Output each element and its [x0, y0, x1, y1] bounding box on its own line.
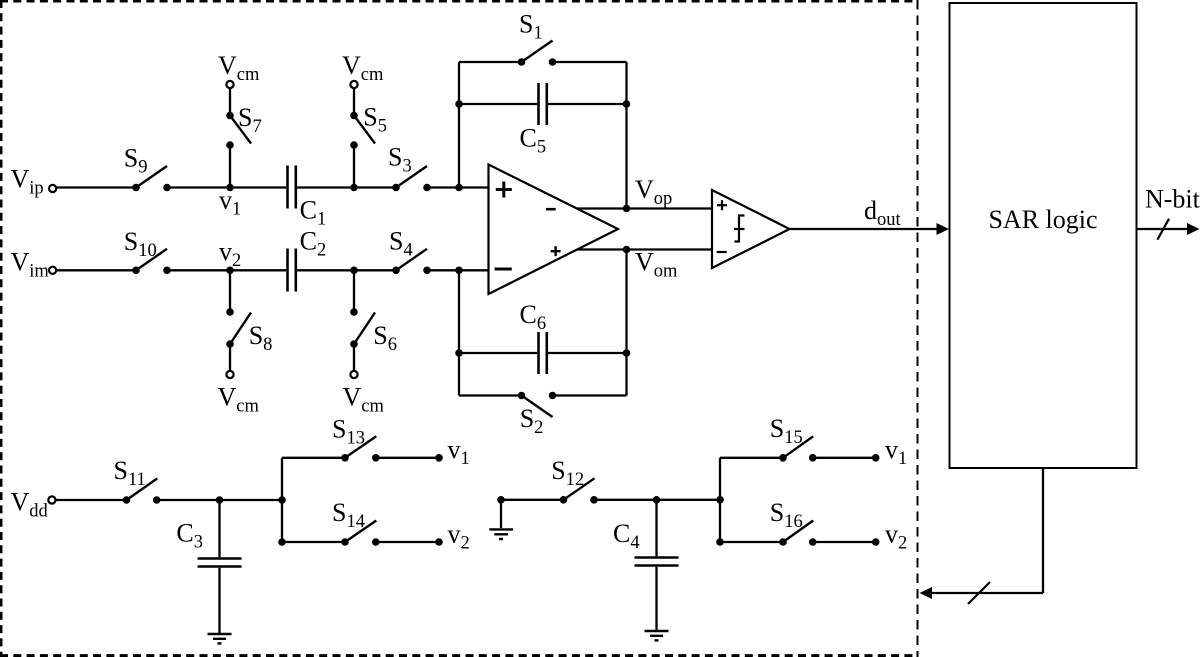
- capacitor C4: [613, 500, 679, 630]
- node v1: [219, 184, 241, 220]
- junction node: - input / feedback loop bottom-left: [455, 267, 463, 275]
- wire dout: comparator to SAR logic: [790, 228, 939, 230]
- net label Vcm (below S8): [218, 382, 260, 416]
- wire S13 to v1 terminal: [376, 454, 443, 462]
- switch S12: [551, 456, 598, 503]
- switch S9: [124, 143, 171, 191]
- wire Vop: op-amp to comparator +: [577, 207, 712, 209]
- ground below C3: [208, 634, 232, 643]
- port Vdd terminal: [11, 487, 56, 521]
- wire Vim to S10: [57, 269, 137, 271]
- op-amp U1 (fully differential): [489, 165, 619, 295]
- node C4 top junction: [653, 496, 661, 504]
- wire feedback left vertical (bottom loop): [458, 270, 460, 395]
- wire feedback right vertical (bottom loop): [625, 250, 627, 396]
- bus slash on feedback wire: [968, 582, 990, 604]
- switch S6 to Vcm (lower right): [350, 270, 397, 378]
- switch S5 to Vcm (upper right): [350, 81, 387, 188]
- node branch junction (S13/S14): [278, 496, 286, 504]
- net label Vcm (below S6): [343, 382, 385, 416]
- node junction at S6 column: [350, 267, 358, 275]
- switch S10: [124, 227, 171, 274]
- ground below C4: [645, 631, 669, 640]
- junction node: + input / feedback loop top-left: [455, 184, 463, 192]
- wire S4 to op-amp - input: [427, 269, 489, 271]
- junction dots C6 branch: [455, 349, 630, 357]
- net label Vcm (above S7): [218, 51, 260, 85]
- switch S7 to Vcm (upper left): [226, 81, 262, 188]
- wire SAR logic feedback (bottom): [932, 468, 1044, 593]
- net label N-bit: [1145, 185, 1200, 214]
- wire S1 top branch: [459, 61, 627, 63]
- switch S2: [518, 392, 557, 438]
- net label dout: [864, 196, 902, 230]
- wire Vom: op-amp to comparator -: [577, 248, 712, 250]
- port Vip terminal: [11, 164, 57, 198]
- svg-text:N-bit: N-bit: [1145, 185, 1200, 214]
- wire C6 branch: [459, 352, 627, 354]
- node Vop junction: [623, 175, 673, 212]
- capacitor C2: [288, 227, 327, 292]
- wire S16 to v2 terminal: [813, 538, 880, 546]
- switch S14: [332, 498, 380, 546]
- wire C2 to S4: [297, 269, 396, 271]
- chip boundary dashed box: [0, 0, 918, 657]
- wire to S13: [282, 457, 345, 459]
- net label v2 (S14): [448, 519, 470, 553]
- bus slash on N-bit output: [1157, 219, 1169, 240]
- node C3 top junction: [216, 496, 224, 504]
- node branch junction (S15/S16): [716, 496, 724, 504]
- net label v1 (S13): [448, 435, 470, 469]
- switch S8 to Vcm (lower left): [226, 270, 272, 378]
- wire feedback right vertical (top loop): [625, 62, 627, 209]
- node corner dot S16 branch: [716, 538, 724, 546]
- wire branch vertical S15/S16: [719, 458, 721, 542]
- wire S9 to C1 via node v1: [167, 186, 286, 188]
- capacitor C6: [520, 300, 547, 374]
- switch S13: [332, 414, 380, 461]
- wire branch vertical S13/S14: [281, 458, 283, 542]
- wire S10 to C2 via node v2: [167, 269, 286, 271]
- node corner dot S14 branch: [278, 538, 286, 546]
- wire to S14: [282, 541, 345, 543]
- wire S3 to op-amp + input: [427, 186, 489, 188]
- wire S14 to v2 terminal: [376, 538, 443, 546]
- capacitor C1: [288, 166, 327, 230]
- comparator U3 (latch with hysteresis): [712, 190, 790, 268]
- switch S11: [114, 456, 161, 504]
- wire Vip to S9: [57, 186, 137, 188]
- SAR logic block U2: [950, 3, 1137, 468]
- switch S4: [389, 227, 431, 275]
- arrowhead dout into SAR logic: [937, 223, 950, 235]
- wire to S15: [720, 457, 783, 459]
- ground at S12 input: [489, 496, 513, 539]
- junction dots C5 branch: [455, 100, 630, 108]
- port Vim terminal: [11, 248, 57, 282]
- net label Vcm (above S5): [342, 51, 384, 85]
- capacitor C3: [176, 500, 241, 633]
- wire S11 to branch node: [157, 499, 282, 501]
- node junction at S5 column: [350, 184, 358, 192]
- net label v1 (S15): [885, 435, 907, 469]
- wire gnd to S12: [501, 499, 564, 501]
- wire S2 bottom branch: [459, 394, 627, 396]
- wire to S16: [720, 541, 783, 543]
- switch S1: [518, 9, 557, 65]
- wire N-bit output from SAR logic: [1137, 228, 1189, 230]
- arrowhead N-bit output: [1187, 223, 1200, 235]
- svg-text:SAR logic: SAR logic: [988, 205, 1097, 234]
- arrowhead feedback into chip boundary: [920, 587, 933, 599]
- capacitor C5: [520, 83, 547, 158]
- switch S15: [770, 414, 817, 461]
- wire C5 branch: [459, 103, 627, 105]
- wire S12 to branch node: [594, 499, 720, 501]
- switch S3: [388, 143, 431, 192]
- wire Vdd to S11: [56, 499, 127, 501]
- wire feedback left vertical (top loop): [458, 62, 460, 188]
- node Vom junction: [623, 246, 678, 282]
- wire C1 to S3: [297, 186, 396, 188]
- node v2: [219, 237, 241, 274]
- net label v2 (S16): [885, 520, 907, 554]
- wire S15 to v1 terminal: [813, 454, 880, 462]
- switch S16: [770, 498, 817, 546]
